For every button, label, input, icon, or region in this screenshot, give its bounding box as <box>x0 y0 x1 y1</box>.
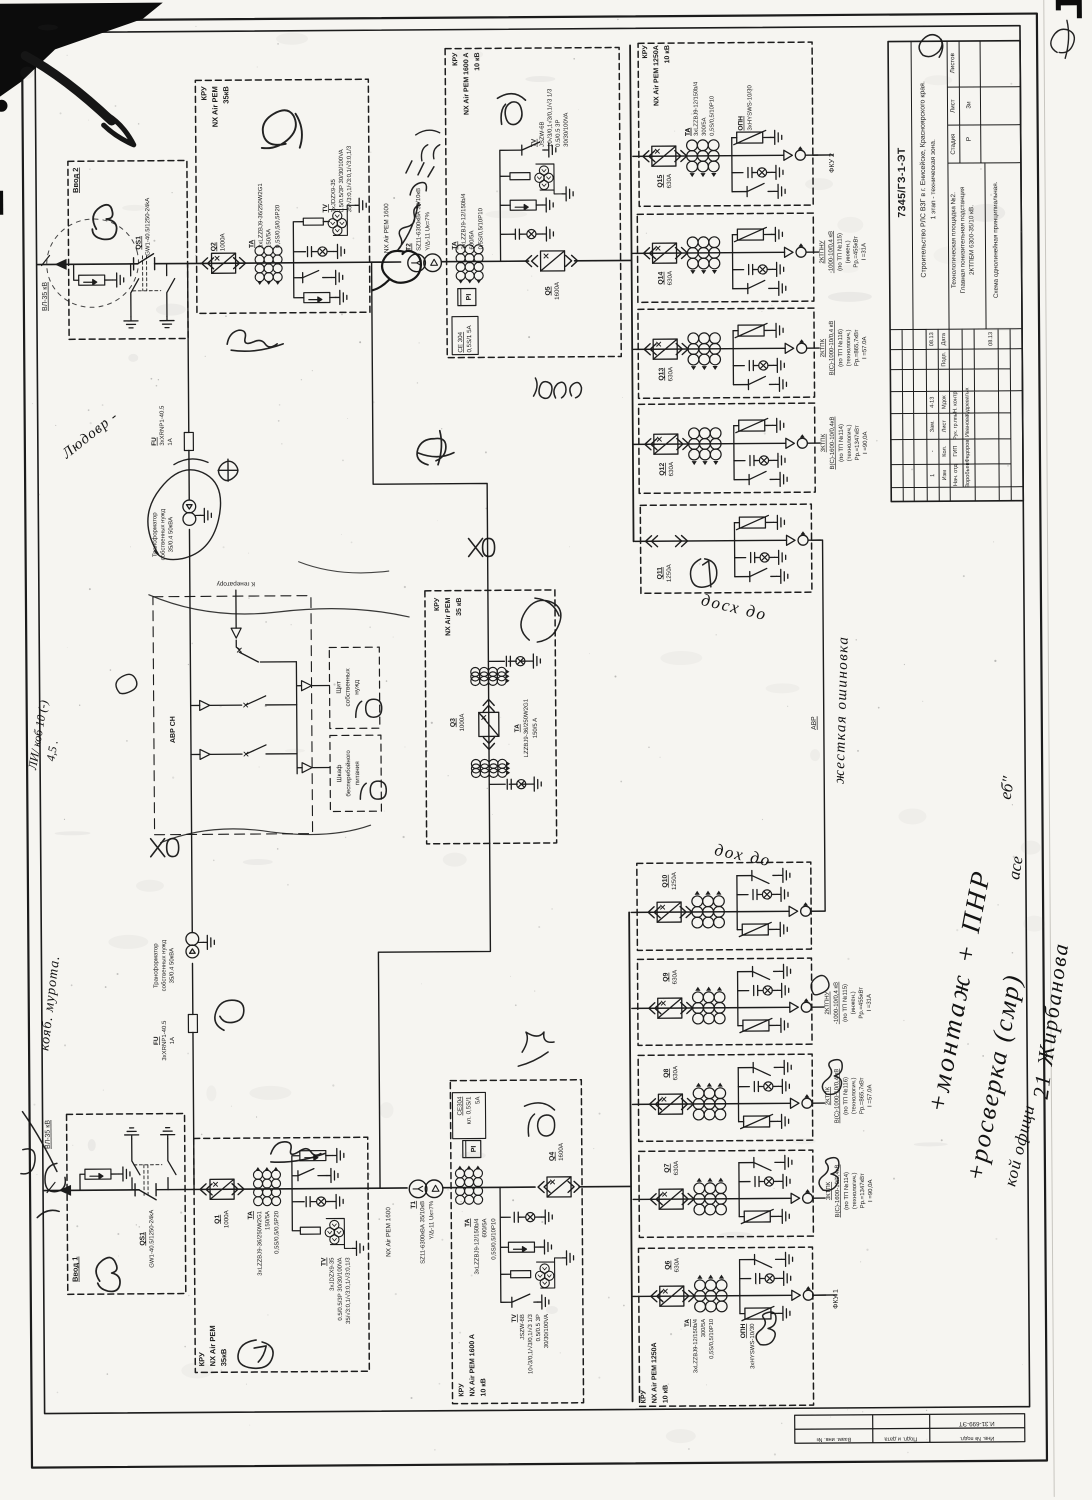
svg-text:1000A: 1000A <box>223 1209 230 1228</box>
bay Q10 branch wires <box>736 876 738 930</box>
voltage indicator (10kV incomer 2) <box>515 229 519 239</box>
svg-text:1A: 1A <box>168 438 174 445</box>
svg-text:Q6: Q6 <box>665 1260 672 1269</box>
svg-text:4-13: 4-13 <box>930 397 936 408</box>
svg-text:I =31А: I =31А <box>867 994 873 1012</box>
svg-text:1000A: 1000A <box>459 713 466 732</box>
svg-text:2КТПНУ: 2КТПНУ <box>819 240 825 263</box>
svg-text:630A: 630A <box>673 1160 680 1175</box>
bay Q10 cubicle box <box>637 862 812 950</box>
svg-text:35кВ: 35кВ <box>221 86 230 104</box>
earthing switch of Q9 <box>753 966 780 979</box>
fuse FU (top) <box>184 432 193 450</box>
breaker Q9 <box>658 998 682 1018</box>
KRU 35kV box (top) <box>195 79 370 313</box>
svg-text:0,5S/0,5/10P10: 0,5S/0,5/10P10 <box>709 1319 715 1359</box>
svg-text:TV: TV <box>531 138 538 147</box>
earthing switch of Q10 <box>752 870 779 883</box>
svg-text:I =57.0А: I =57.0А <box>867 1084 873 1107</box>
current transformer TA of Q13 <box>688 333 721 370</box>
earthing switch of Q8 <box>753 1062 780 1075</box>
surge arrester of Q6 <box>742 1306 774 1320</box>
voltage indicator of Q8 <box>754 1082 758 1092</box>
switchboard SN box <box>329 647 380 728</box>
TV branch (10kV incomer 1) <box>500 1187 512 1302</box>
aux transformer TSN2 <box>186 933 199 958</box>
voltage indicator of Q10 <box>753 890 757 900</box>
earthing switch of Q15 <box>747 183 774 196</box>
svg-text:7345/ГЗ-1-ЭТ: 7345/ГЗ-1-ЭТ <box>896 147 908 218</box>
drawout contacts Q3 upper <box>483 699 494 711</box>
svg-text:TA: TA <box>685 128 692 136</box>
svg-text:08.13: 08.13 <box>988 332 994 346</box>
svg-text:I =31А: I =31А <box>861 243 867 261</box>
svg-text:35 кВ: 35 кВ <box>456 598 463 616</box>
svg-text:35/√3:0,1/√3:0,1/√3:0,1/3: 35/√3:0,1/√3:0,1/√3:0,1/3 <box>346 145 353 212</box>
scribble above Q4 <box>518 1032 554 1066</box>
svg-text:бесперебойного: бесперебойного <box>345 750 352 797</box>
KRU 35kV box Q3 <box>425 590 557 844</box>
wire T2 to KRU1600 <box>442 260 529 263</box>
current transformer TA of Q9 <box>692 987 725 1024</box>
bay Q13 drawout contacts <box>644 344 656 355</box>
current transformer TA (10kV incomer 2) <box>456 245 483 284</box>
svg-text:досх до: досх до <box>699 590 769 624</box>
svg-text:SZ11-6300кВА 35/10кВ: SZ11-6300кВА 35/10кВ <box>420 1201 426 1264</box>
bay Q7 drawout contacts <box>650 1194 662 1205</box>
bay Q9 cubicle box <box>637 958 812 1045</box>
svg-text:(технологич.): (технологич.) <box>847 425 853 462</box>
svg-text:300/5A: 300/5A <box>701 1319 707 1338</box>
voltage indicator (top 35kV) <box>307 247 311 257</box>
current transformer TA lower (Q3) <box>471 759 510 777</box>
svg-text:КРУ: КРУ <box>642 45 649 59</box>
svg-text:630A: 630A <box>674 1257 681 1272</box>
bay Q14 cubicle box <box>637 213 814 302</box>
QS1 interlock dashed linkage <box>133 256 161 291</box>
svg-text:Ввод 2: Ввод 2 <box>71 168 80 193</box>
svg-text:Взам. инв. №: Взам. инв. № <box>816 1436 851 1442</box>
svg-text:1600A: 1600A <box>554 281 561 300</box>
svg-text:СЕ304: СЕ304 <box>456 1096 463 1116</box>
svg-text:Кудреватых: Кудреватых <box>964 387 970 416</box>
svg-text:еб": еб" <box>996 774 1019 801</box>
svg-text:КРУ: КРУ <box>458 1383 465 1397</box>
earthing switch of Q13 <box>748 376 775 389</box>
bay Q14 feeder wire <box>632 252 785 253</box>
bay Q6 drawout contacts <box>651 1291 663 1302</box>
bay Q12 cubicle box <box>639 403 816 493</box>
circled 8 Q7 <box>819 1158 839 1191</box>
surge arrester of Q15 <box>734 130 766 144</box>
svg-text:0,5S/0,5/0,5P20: 0,5S/0,5/0,5P20 <box>275 204 281 248</box>
svg-text:Строительство РЛС ВЗГ в г. Ени: Строительство РЛС ВЗГ в г. Енисейске, Кр… <box>918 81 927 278</box>
wire link to T1 <box>380 1187 407 1189</box>
circled 4 near FU <box>417 431 454 465</box>
bay Q13 feeder wire <box>632 348 785 349</box>
earthing switch 2 vvod2 <box>167 264 175 317</box>
svg-text:Лист: Лист <box>942 420 948 433</box>
breaker Q5 <box>541 251 565 271</box>
fuse of TV (top 35kV) <box>303 218 323 225</box>
svg-text:Q13: Q13 <box>658 368 665 381</box>
bay Q7 feeder wire <box>633 1198 791 1199</box>
surge arrester of Q8 <box>741 1114 773 1128</box>
cable plug of Q6 <box>792 1286 814 1300</box>
hand ellipse around TSN1 <box>147 459 221 560</box>
svg-text:Q7: Q7 <box>664 1163 671 1172</box>
svg-text:I =90,0А: I =90,0А <box>863 431 869 454</box>
voltage transformer TV (10kV incomer 2) <box>535 166 554 190</box>
svg-text:35/0.4 50кВА: 35/0.4 50кВА <box>168 517 174 552</box>
handwriting bocho below Q2 <box>227 330 283 352</box>
handwriting mark title top <box>919 35 943 58</box>
svg-text:3xLZZBJ9-36/250W2G1: 3xLZZBJ9-36/250W2G1 <box>258 183 264 248</box>
breaker Q12 <box>654 434 678 454</box>
svg-text:30/30/100VA: 30/30/100VA <box>564 113 570 147</box>
svg-text:Y/Δ-11 Uк=7%: Y/Δ-11 Uк=7% <box>425 211 431 250</box>
voltage indicator of Q14 <box>749 265 753 275</box>
circled 3 near Q3 box <box>521 598 561 642</box>
breaker Q15 <box>652 146 676 166</box>
bay Q8 drawout contacts <box>649 1099 661 1110</box>
drawout contacts Q3 lower <box>483 737 494 749</box>
svg-text:3xLZZBJ9-12/150b/4: 3xLZZBJ9-12/150b/4 <box>693 81 699 136</box>
svg-text:600/5A: 600/5A <box>469 230 475 249</box>
voltage indicator (bottom 35kV) <box>306 1197 310 1207</box>
voltage transformer TV (10kV incomer 1) <box>535 1264 554 1288</box>
svg-text:0,5S/0,5/10P10: 0,5S/0,5/10P10 <box>478 207 484 249</box>
svg-text:1000A: 1000A <box>219 232 226 251</box>
Q3 feeder wire <box>488 590 490 843</box>
svg-text:TA: TA <box>451 241 458 250</box>
fuse TV (10kV incomer 1) <box>511 1271 531 1278</box>
svg-text:3xHYSWS-10/30: 3xHYSWS-10/30 <box>747 85 753 131</box>
svg-text:Q9: Q9 <box>663 972 670 981</box>
svg-text:Подп.: Подп. <box>941 351 947 366</box>
svg-text:TV: TV <box>321 1257 328 1266</box>
bay Q13 cubicle box <box>638 308 815 398</box>
svg-text:3xXRNP1-40.5: 3xXRNP1-40.5 <box>160 405 166 446</box>
svg-text:FU: FU <box>153 1036 160 1045</box>
svg-text:600/5A: 600/5A <box>482 1218 488 1237</box>
voltage indicator of Q11 <box>751 553 755 563</box>
handwriting 1600 near box <box>533 378 581 399</box>
svg-text:GW1-40.5/1250-24kA: GW1-40.5/1250-24kA <box>149 1210 155 1268</box>
bay Q7 cubicle box <box>639 1150 814 1237</box>
svg-text:Q11: Q11 <box>657 567 664 580</box>
svg-text:630A: 630A <box>672 1065 679 1080</box>
drawout contacts Q4 <box>538 1181 550 1192</box>
svg-text:NX Air PEM 1600: NX Air PEM 1600 <box>383 203 390 253</box>
zh0 mark 2 <box>151 839 179 857</box>
svg-text:35/0.4 50кВА: 35/0.4 50кВА <box>169 948 175 983</box>
35kV section link wire lower <box>378 843 492 1188</box>
circled 8 Q6 <box>756 1312 776 1345</box>
circled 5 avr <box>116 674 137 693</box>
cable plug of Q9 <box>790 998 812 1012</box>
svg-text:1A: 1A <box>170 1037 176 1044</box>
svg-text:0.5/0.5/3P 30/30/100VA: 0.5/0.5/3P 30/30/100VA <box>339 149 345 212</box>
scan corner mark top right <box>1056 0 1082 18</box>
bay Q6 feeder wire <box>633 1295 792 1296</box>
earthing switch of Q7 <box>754 1157 781 1170</box>
svg-text:JSZW-6B: JSZW-6B <box>540 121 546 147</box>
svg-text:Р: Р <box>966 136 973 141</box>
surge arrester of Q7 <box>741 1209 773 1223</box>
handwriting above T2 <box>396 161 435 251</box>
breaker Q3 <box>479 712 499 736</box>
earthing switch of Q14 <box>748 280 775 293</box>
svg-text:Q2: Q2 <box>210 242 217 251</box>
wire T1 to KRU1600 bottom <box>443 1186 535 1189</box>
svg-text:питания: питания <box>354 761 361 786</box>
TV branch wires (bottom 35kV) <box>292 1156 305 1231</box>
svg-text:1 этап - техническая зона.: 1 этап - техническая зона. <box>930 139 938 219</box>
bay Q14 branch wires <box>731 235 733 289</box>
bay Q8 feeder wire <box>632 1103 790 1104</box>
svg-text:Q15: Q15 <box>657 175 664 188</box>
bay Q9 branch wires <box>737 972 739 1026</box>
svg-text:3xJDZX9-35: 3xJDZX9-35 <box>331 178 337 212</box>
circled 10 top <box>497 94 525 125</box>
svg-text:4,5 .: 4,5 . <box>43 739 60 762</box>
svg-text:Людовр -: Людовр - <box>58 408 121 463</box>
svg-text:NX Air PEM 1600 A: NX Air PEM 1600 A <box>463 53 470 116</box>
earthing switch 2 vvod1 <box>168 1139 176 1190</box>
bay Q15 branch wires <box>731 138 733 192</box>
isolator switch (10kV incomer 2) <box>522 142 545 155</box>
svg-text:08.13: 08.13 <box>929 332 935 346</box>
voltage indicator (10kV incomer 1) <box>514 1212 518 1222</box>
bay Q11 branch wires <box>733 523 735 577</box>
svg-text:TA: TA <box>684 1319 691 1327</box>
section link wire Q11-Q10 <box>809 540 826 911</box>
10kV section 2 bus <box>630 45 633 541</box>
svg-text:2КТПК: 2КТПК <box>820 338 826 357</box>
ATS contactor 1 (from TSN1) <box>191 696 297 706</box>
wire Q5 to bus 2 <box>575 259 632 261</box>
circled 3 vvod1 <box>96 1257 120 1291</box>
svg-text:NX Air PEM 1250A: NX Air PEM 1250A <box>653 45 660 106</box>
surge arrester FV vvod2 <box>74 264 79 280</box>
current transformer TA of Q14 <box>687 237 720 274</box>
voltage indicator of Q9 <box>754 986 758 996</box>
svg-text:Рр.=455кВт: Рр.=455кВт <box>859 987 865 1019</box>
svg-text:150/5 A: 150/5 A <box>533 718 539 738</box>
svg-text:Воробьев: Воробьев <box>965 462 971 487</box>
earthing switch of Q11 <box>750 568 777 581</box>
svg-text:0.5/0.5 3P: 0.5/0.5 3P <box>536 1314 542 1341</box>
svg-text:T1: T1 <box>410 1201 417 1209</box>
svg-text:1600A: 1600A <box>558 1142 565 1161</box>
entry swirls vvod1 <box>21 1111 66 1217</box>
circled plus near TSN1 <box>218 459 238 481</box>
svg-text:Листов: Листов <box>949 52 956 73</box>
svg-text:ФКУ 1: ФКУ 1 <box>833 1289 840 1309</box>
svg-text:АВР: АВР <box>811 716 818 730</box>
svg-text:TV: TV <box>322 203 329 212</box>
svg-text:(инжен.): (инжен.) <box>851 991 857 1014</box>
svg-text:(технологич.): (технологич.) <box>846 330 852 367</box>
svg-text:150/5A: 150/5A <box>265 1211 271 1230</box>
cable plug of Q10 <box>789 902 811 916</box>
svg-text:QS1: QS1 <box>135 236 142 250</box>
svg-text:ВЛ-35 кВ: ВЛ-35 кВ <box>45 1120 52 1149</box>
svg-text:ОПН: ОПН <box>738 116 745 131</box>
svg-text:30/30/100VA: 30/30/100VA <box>544 1314 550 1348</box>
zh0 mark 1 <box>469 538 495 556</box>
svg-text:0,5S/1 5A: 0,5S/1 5A <box>466 324 473 352</box>
svg-text:Н. контр: Н. контр <box>953 391 959 413</box>
earthing switch (top 35kV) <box>303 270 332 282</box>
svg-text:Q1: Q1 <box>214 1215 221 1224</box>
svg-text:3КТПК: 3КТПК <box>821 433 827 452</box>
svg-text:NX Air PEM: NX Air PEM <box>208 1325 217 1366</box>
svg-text:И.31-699-ЭТ: И.31-699-ЭТ <box>959 1420 995 1427</box>
voltage indicator of Q6 <box>756 1274 760 1284</box>
handwriting right margin top <box>1051 20 1075 58</box>
svg-text:(по ТП №114): (по ТП №114) <box>843 1172 850 1210</box>
svg-text:(технологич.): (технологич.) <box>852 1173 858 1210</box>
svg-text:NX Air PEM: NX Air PEM <box>210 86 219 127</box>
svg-text:Кол.: Кол. <box>942 445 948 457</box>
bay Q6 cubicle box <box>638 1247 813 1406</box>
circled 9 top <box>262 110 303 148</box>
surge arrester of Q14 <box>734 227 766 241</box>
svg-text:ГИП: ГИП <box>953 446 959 457</box>
svg-text:10 кВ: 10 кВ <box>662 1385 669 1403</box>
svg-text:Дата: Дата <box>941 332 947 345</box>
bay Q9 feeder wire <box>632 1007 790 1008</box>
svg-text:Шкаф: Шкаф <box>336 765 343 783</box>
scan corner blob <box>0 3 163 100</box>
svg-text:Рр.=865,7кВт: Рр.=865,7кВт <box>859 1077 865 1114</box>
hand blob around T2 <box>373 251 422 290</box>
svg-text:3xJDZX9-35: 3xJDZX9-35 <box>330 1257 336 1291</box>
FKU1 wire and label <box>813 1294 837 1296</box>
svg-text:АВР СН: АВР СН <box>170 716 177 743</box>
svg-text:КРУ: КРУ <box>640 1389 647 1403</box>
earthing switch 1 vvod2 <box>131 264 139 317</box>
svg-text:ОПН: ОПН <box>740 1323 747 1338</box>
voltage indicator of Q13 <box>749 361 753 371</box>
bay Q8 cubicle box <box>638 1054 813 1141</box>
breaker Q1 <box>210 1179 234 1199</box>
svg-text:TA: TA <box>514 724 521 732</box>
current transformer TA Q2 <box>255 246 282 285</box>
svg-text:КРУ: КРУ <box>434 597 441 611</box>
svg-text:3xLZZBJ9-12/150b/4: 3xLZZBJ9-12/150b/4 <box>461 193 467 250</box>
drawout contacts Q2 <box>202 258 214 269</box>
surge arrester FV vvod1 <box>80 1174 85 1190</box>
KRU 1600A box (top) <box>445 47 621 357</box>
svg-text:CE 304: CE 304 <box>457 331 464 352</box>
svg-text:GW1-40.5/1250-24kA: GW1-40.5/1250-24kA <box>145 198 151 256</box>
current transformer TA upper (Q3) <box>471 667 510 685</box>
circled 10 near Q4 <box>524 1103 554 1136</box>
bay Q15 cubicle box <box>638 42 813 206</box>
svg-text:10√3/0,1/√3/0,1/√3 1/3: 10√3/0,1/√3/0,1/√3 1/3 <box>527 1313 534 1374</box>
surge arrester of Q9 <box>740 1018 772 1032</box>
svg-text:35кВ: 35кВ <box>219 1348 228 1366</box>
svg-text:1250A: 1250A <box>671 871 678 890</box>
svg-text:асе: асе <box>1004 854 1027 881</box>
plug to switchboard SN <box>302 681 330 691</box>
svg-text:0,5S/0,5/0,5P20: 0,5S/0,5/0,5P20 <box>274 1210 280 1254</box>
entry arrow vvod1 <box>59 1185 71 1196</box>
TV branch wires (top 35kV) <box>293 221 330 297</box>
aux transformer TSN1 <box>183 500 196 525</box>
svg-text:3xXRNP1-40.5: 3xXRNP1-40.5 <box>162 1020 168 1061</box>
earthing switch of Q6 <box>755 1254 782 1267</box>
svg-text:(по ТП №116): (по ТП №116) <box>842 1077 849 1115</box>
bay Q14 drawout contacts <box>643 248 655 259</box>
surge arrester of Q10 <box>739 922 771 936</box>
svg-text:3xHYSWS-10/30: 3xHYSWS-10/30 <box>750 1323 756 1369</box>
circled 3 vvod2 <box>92 205 117 240</box>
current transformer TA of Q10 <box>692 891 725 928</box>
svg-text:10 кВ: 10 кВ <box>480 1378 487 1396</box>
voltage indicator of Q15 <box>748 168 752 178</box>
svg-text:PI: PI <box>466 294 473 301</box>
svg-text:Q10: Q10 <box>662 875 669 888</box>
svg-text:Q14: Q14 <box>658 272 665 285</box>
svg-text:10√3/0,1√3/0,1/√3 1/3: 10√3/0,1√3/0,1/√3 1/3 <box>546 88 553 147</box>
svg-text:собственных нужд: собственных нужд <box>161 939 167 991</box>
cable plug of Q11 <box>786 531 808 545</box>
svg-text:-1000-10/0,4 кВ: -1000-10/0,4 кВ <box>828 231 834 273</box>
svg-text:0,5S/0,5/10P10: 0,5S/0,5/10P10 <box>491 1218 497 1260</box>
drawout contacts Q5 <box>526 256 538 267</box>
bay Q11 drawout contacts <box>646 536 658 547</box>
svg-text:0.5/0.5 3P: 0.5/0.5 3P <box>556 120 562 147</box>
QS1 interlock linkage vvod1 <box>134 1165 162 1198</box>
svg-text:FU: FU <box>151 437 158 446</box>
svg-text:Q12: Q12 <box>659 463 666 476</box>
svg-text:(по ТП №115): (по ТП №115) <box>842 984 849 1022</box>
svg-text:Трансформатор: Трансформатор <box>153 943 159 988</box>
bay Q6 branch wires <box>739 1260 741 1314</box>
bay Q7 branch wires <box>738 1163 740 1217</box>
svg-text:(по ТП №114): (по ТП №114) <box>838 424 845 462</box>
svg-text:ФКУ 2: ФКУ 2 <box>829 153 836 173</box>
transformer T1 <box>409 1180 427 1198</box>
svg-text:5А: 5А <box>474 1096 481 1104</box>
circled mark Q9 <box>811 975 829 994</box>
svg-text:(инжен.): (инжен.) <box>845 240 851 263</box>
current transformer TA of Q12 <box>689 428 722 465</box>
line break slash vvod1 <box>47 1182 55 1192</box>
drawout contacts Q1 <box>200 1184 212 1195</box>
wire Q4 to bus 1 <box>579 1185 631 1187</box>
UPS cabinet box <box>330 735 382 811</box>
svg-text:10 кВ: 10 кВ <box>664 45 671 63</box>
meter CE304 (bottom) <box>463 1140 481 1157</box>
voltage transformer TV (bottom 35kV) <box>325 1220 344 1244</box>
current transformer TA of Q15 <box>687 140 720 177</box>
svg-text:Рр.=1347кВт: Рр.=1347кВт <box>860 1173 866 1208</box>
circled 7 bottom <box>238 1340 273 1369</box>
bay Q15 drawout contacts <box>643 151 655 162</box>
disconnector QS1 vvod1 <box>135 1183 207 1200</box>
KRU 1600A box (bottom) <box>450 1080 583 1404</box>
svg-text:3и: 3и <box>965 101 972 109</box>
vvod 1 box <box>67 1114 186 1295</box>
vvod 2 box <box>68 160 188 339</box>
current transformer TA of Q6 <box>694 1275 727 1312</box>
svg-text:Рр.=455кВт: Рр.=455кВт <box>853 236 859 268</box>
